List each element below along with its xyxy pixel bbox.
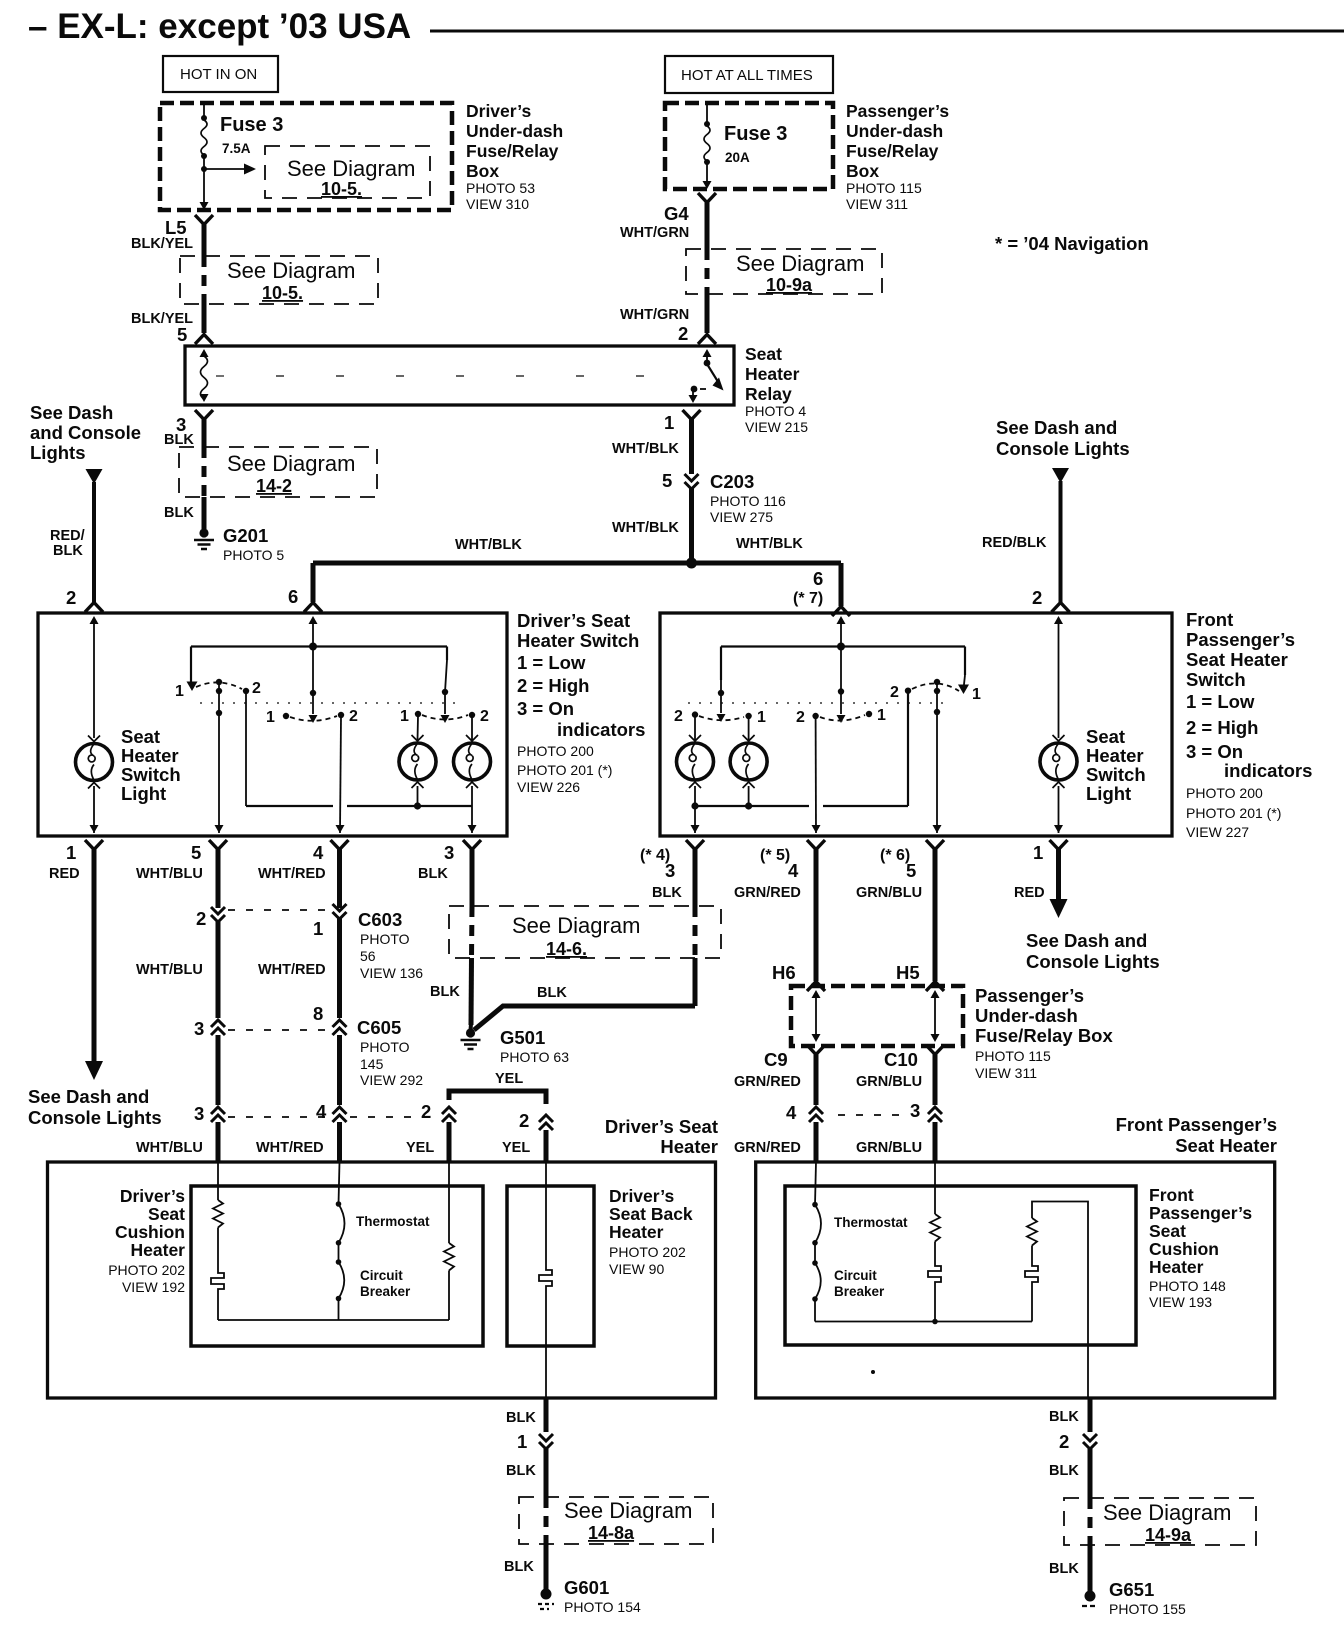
svg-text:3: 3 [910, 1100, 920, 1121]
svg-text:1: 1 [877, 707, 886, 724]
note see dash and console lights (left) [30, 402, 141, 463]
connector C605 pin 3 [194, 1018, 225, 1039]
wire WHT/RED segment 2 [258, 918, 340, 1018]
svg-text:Seat: Seat [121, 726, 160, 747]
driver's seat back heater inner box [507, 1186, 594, 1346]
wire RED passenger pin 1 to dash lights [1014, 849, 1068, 918]
label seat heater relay [745, 344, 808, 435]
svg-text:Front: Front [1149, 1185, 1194, 1205]
svg-text:2 = High: 2 = High [517, 675, 589, 696]
front passenger's seat cushion heater inner box [785, 1186, 1136, 1345]
passenger lamp bus (hops pin-4 wire) [695, 692, 908, 806]
svg-text:H5: H5 [896, 962, 920, 983]
svg-text:Thermostat: Thermostat [834, 1215, 908, 1230]
passenger switch: pin 6 column [837, 616, 846, 647]
connector heater pin 3 (passenger) [910, 1100, 942, 1122]
svg-text:Console Lights: Console Lights [28, 1107, 162, 1128]
svg-text:PHOTO 63: PHOTO 63 [500, 1049, 569, 1065]
svg-text:1: 1 [400, 708, 409, 725]
svg-text:WHT/BLK: WHT/BLK [455, 537, 522, 553]
relay coil [200, 349, 209, 402]
svg-text:See Diagram: See Diagram [227, 451, 355, 476]
svg-text:Passenger’s: Passenger’s [1149, 1203, 1252, 1223]
svg-text:Switch: Switch [1086, 764, 1146, 785]
svg-text:YEL: YEL [502, 1140, 530, 1156]
svg-text:Heater: Heater [609, 1222, 664, 1242]
wire WHT/BLK horizontal bus [313, 536, 841, 563]
svg-text:BLK: BLK [506, 1410, 536, 1426]
note see dash and console lights (mid left) [28, 1086, 162, 1128]
svg-text:3: 3 [444, 842, 454, 863]
svg-text:1: 1 [313, 918, 323, 939]
svg-text:WHT/BLU: WHT/BLU [136, 1140, 203, 1156]
junction node WHT/BLK [686, 558, 697, 569]
connector C10 [884, 1045, 944, 1070]
svg-text:5: 5 [906, 860, 916, 881]
svg-text:G601: G601 [564, 1577, 609, 1598]
svg-text:See Dash: See Dash [30, 402, 113, 423]
svg-text:3: 3 [665, 860, 675, 881]
svg-text:Fuse/Relay: Fuse/Relay [466, 141, 559, 161]
svg-text:2: 2 [421, 1101, 431, 1122]
svg-text:Fuse/Relay Box: Fuse/Relay Box [975, 1025, 1113, 1046]
see diagram 14-8a box [519, 1497, 713, 1544]
svg-text:See Dash and: See Dash and [1026, 930, 1147, 951]
svg-text:BLK: BLK [537, 985, 567, 1001]
svg-text:PHOTO 115: PHOTO 115 [846, 180, 922, 196]
svg-text:8: 8 [313, 1003, 323, 1024]
svg-text:Heater: Heater [1086, 745, 1144, 766]
arrow to see diagram 10-5 [204, 164, 256, 175]
svg-text:VIEW 215: VIEW 215 [745, 419, 808, 435]
svg-text:(* 7): (* 7) [793, 590, 823, 607]
svg-text:BLK: BLK [418, 866, 448, 882]
svg-text:WHT/RED: WHT/RED [258, 962, 326, 978]
wire WHT/RED segment 3 [256, 1035, 340, 1156]
svg-text:Passenger’s: Passenger’s [975, 985, 1084, 1006]
wire WHT/BLU segment 3 [136, 1035, 218, 1156]
label front passenger's seat heater [1116, 1114, 1277, 1156]
svg-text:Box: Box [466, 161, 499, 181]
svg-text:Breaker: Breaker [360, 1284, 411, 1299]
wire GRN/BLU into heater box [856, 1122, 935, 1162]
svg-text:WHT/BLU: WHT/BLU [136, 866, 203, 882]
driver's seat heater switch box S1 [38, 613, 507, 836]
wire GRN/RED into heater box [734, 1122, 816, 1162]
svg-text:RED/: RED/ [50, 528, 85, 544]
svg-text:14-6.: 14-6. [546, 939, 587, 959]
svg-text:VIEW 227: VIEW 227 [1186, 824, 1249, 840]
label driver's seat cushion heater [108, 1186, 185, 1295]
svg-text:C10: C10 [884, 1049, 918, 1070]
svg-text:See Dash and: See Dash and [996, 417, 1117, 438]
svg-text:20A: 20A [725, 150, 750, 165]
see diagram 10-9a box [686, 249, 882, 295]
connector heater pin 4 [316, 1101, 347, 1122]
wire BLK driver heater to G601 [506, 1398, 546, 1432]
svg-text:PHOTO 155: PHOTO 155 [1109, 1601, 1186, 1617]
svg-text:Circuit: Circuit [834, 1268, 877, 1283]
svg-text:3 = On: 3 = On [517, 698, 574, 719]
svg-text:Under-dash: Under-dash [846, 121, 943, 141]
connector driver switch pin 2 (top) [66, 587, 103, 612]
svg-text:14-9a: 14-9a [1145, 1525, 1192, 1545]
svg-text:Under-dash: Under-dash [466, 121, 563, 141]
wire WHT/RED into heater box [337, 1122, 342, 1162]
svg-text:VIEW 193: VIEW 193 [1149, 1294, 1212, 1310]
svg-text:2: 2 [796, 709, 805, 726]
svg-text:Light: Light [1086, 783, 1131, 804]
svg-text:Front Passenger’s: Front Passenger’s [1116, 1114, 1277, 1135]
svg-text:1 = Low: 1 = Low [1186, 691, 1255, 712]
svg-text:Passenger’s: Passenger’s [846, 101, 949, 121]
svg-text:BLK: BLK [164, 432, 194, 448]
svg-text:Seat: Seat [148, 1204, 185, 1224]
label driver's seat heater switch [517, 610, 645, 795]
svg-text:5: 5 [662, 470, 672, 491]
svg-text:1: 1 [664, 412, 674, 433]
connector H5 [926, 982, 944, 992]
svg-text:– EX-L: except ’03 USA: – EX-L: except ’03 USA [28, 7, 411, 46]
svg-text:RED/BLK: RED/BLK [982, 535, 1047, 551]
svg-text:VIEW 311: VIEW 311 [846, 196, 908, 212]
wire WHT/BLK C203 to junction [612, 488, 692, 563]
passenger switch internal bus [721, 643, 965, 651]
svg-text:GRN/BLU: GRN/BLU [856, 885, 922, 901]
svg-text:BLK: BLK [164, 505, 194, 521]
passenger seat heater switch light L2 [1040, 735, 1077, 788]
connector C203 [662, 470, 786, 525]
svg-text:PHOTO 4: PHOTO 4 [745, 403, 806, 419]
svg-text:Heater: Heater [1149, 1257, 1204, 1277]
wire lamp B down to pin 3 [468, 786, 477, 833]
driver seat heater switch light L1 [76, 736, 113, 789]
svg-text:C9: C9 [764, 1049, 788, 1070]
wire BLK to 14-9a [1049, 1448, 1090, 1498]
svg-text:See Diagram: See Diagram [564, 1498, 692, 1523]
svg-text:RED: RED [1014, 885, 1045, 901]
wire BLK to G601 [504, 1544, 546, 1590]
label C605 [357, 1017, 423, 1088]
svg-text:Heater: Heater [131, 1240, 186, 1260]
mechanical linkage (dashed) passenger [688, 702, 952, 704]
wire G4 inside see-diagram box [705, 249, 710, 294]
wire YEL loop (seat back heater feed) [449, 1071, 546, 1104]
driver switch pair C (indicator select) [400, 647, 489, 726]
label seat heater switch light (driver) [121, 726, 181, 804]
svg-text:BLK/YEL: BLK/YEL [131, 236, 193, 252]
driver switch pair A (wiper to pin 5) [175, 679, 261, 716]
wire BLK inside see-diagram box (driver tail) [544, 1497, 549, 1544]
svg-text:1 = Low: 1 = Low [517, 652, 586, 673]
svg-text:Fuse/Relay: Fuse/Relay [846, 141, 939, 161]
svg-text:Heater: Heater [660, 1136, 718, 1157]
svg-text:See Diagram: See Diagram [287, 156, 415, 181]
wire GRN/BLU passenger segment 1 [856, 849, 935, 983]
svg-text:2: 2 [519, 1110, 529, 1131]
svg-text:VIEW 310: VIEW 310 [466, 196, 529, 212]
label passenger's under-dash fuse/relay box [846, 101, 949, 212]
passenger cushion heater element 2 (return leg) [1025, 1202, 1088, 1399]
connector C9 [764, 1045, 825, 1070]
svg-text:WHT/GRN: WHT/GRN [620, 225, 689, 241]
svg-text:2 = High: 2 = High [1186, 717, 1258, 738]
svg-text:PHOTO: PHOTO [360, 931, 410, 947]
connector 1 (driver tail) [517, 1431, 553, 1452]
svg-text:56: 56 [360, 948, 376, 964]
svg-text:WHT/GRN: WHT/GRN [620, 307, 689, 323]
svg-text:HOT AT ALL TIMES: HOT AT ALL TIMES [681, 67, 813, 84]
driver switch pin 4 connector [313, 840, 349, 863]
wire WHT/BLU segment 1 [136, 849, 218, 908]
wire BLK to G201 [164, 497, 204, 529]
svg-text:PHOTO 116: PHOTO 116 [710, 493, 786, 509]
svg-text:145: 145 [360, 1056, 384, 1072]
svg-text:Driver’s Seat: Driver’s Seat [517, 610, 630, 631]
ground G501 [461, 1027, 570, 1065]
passenger pair B (from pin 6) [796, 647, 886, 727]
wire L5 inside see-diagram box [202, 256, 207, 304]
svg-text:indicators: indicators [557, 719, 645, 740]
passenger indicator lamp A [677, 735, 714, 788]
connector yel left pin 2 [421, 1101, 456, 1122]
svg-text:2: 2 [1032, 587, 1042, 608]
driver switch pair B (feeds pin 4) [266, 647, 358, 727]
wire WHT/BLU into heater box [216, 1122, 221, 1162]
svg-text:7.5A: 7.5A [222, 141, 251, 156]
svg-text:See Diagram: See Diagram [227, 258, 355, 283]
connector row tie line (passenger) [838, 1114, 908, 1116]
svg-text:WHT/RED: WHT/RED [258, 866, 326, 882]
svg-text:10-5.: 10-5. [262, 283, 303, 303]
svg-text:VIEW 275: VIEW 275 [710, 509, 773, 525]
svg-text:Seat Heater: Seat Heater [1175, 1135, 1277, 1156]
passenger pair A wiper column (from bus) [674, 647, 766, 727]
svg-text:Relay: Relay [745, 384, 792, 404]
svg-text:Fuse 3: Fuse 3 [724, 123, 787, 145]
see diagram 10-5 box (wire L5) [180, 256, 378, 304]
svg-text:PHOTO 200: PHOTO 200 [1186, 785, 1263, 801]
wire pair C wiper to pin 5 [933, 712, 942, 833]
connector passenger switch pin 2 (top) [1032, 587, 1070, 612]
svg-text:Cushion: Cushion [115, 1222, 185, 1242]
svg-text:1: 1 [757, 709, 766, 726]
driver switch pin 3 connector [444, 840, 481, 863]
connector H6 [807, 982, 825, 992]
wire BLK driver through 14-6 to G501 [430, 906, 472, 1030]
svg-text:Heater Switch: Heater Switch [517, 630, 639, 651]
wire BLK to 14-8a [506, 1448, 546, 1497]
wire G4 WHT/GRN [620, 202, 707, 249]
wire bus to contact 1 of pair A [190, 647, 192, 685]
wire WHT/BLU segment 2 [136, 921, 218, 1018]
svg-text:4: 4 [786, 1102, 797, 1123]
svg-text:Driver’s: Driver’s [466, 101, 531, 121]
wire L5 BLK/YEL [131, 224, 204, 256]
svg-text:PHOTO 201 (*): PHOTO 201 (*) [517, 762, 612, 778]
svg-text:5: 5 [191, 842, 201, 863]
svg-text:2: 2 [678, 323, 688, 344]
passenger circuit breaker [812, 1243, 885, 1322]
svg-text:2: 2 [674, 708, 683, 725]
front passenger's seat heater assembly box [756, 1162, 1275, 1398]
svg-text:1: 1 [66, 842, 76, 863]
wire GRN/BLU segment 2 [856, 1054, 935, 1105]
wire lamp B to lamp bus [745, 786, 752, 810]
svg-text:Light: Light [121, 783, 166, 804]
svg-text:6: 6 [288, 586, 298, 607]
driver's seat cushion heater inner box [191, 1186, 483, 1346]
svg-text:Thermostat: Thermostat [356, 1214, 430, 1229]
svg-text:RED: RED [49, 866, 80, 882]
svg-text:YEL: YEL [406, 1140, 434, 1156]
svg-text:GRN/BLU: GRN/BLU [856, 1074, 922, 1090]
svg-text:2: 2 [252, 680, 261, 697]
see diagram 14-9a box [1064, 1498, 1256, 1545]
passenger's under-dash fuse/relay box (dashed, top) [665, 103, 833, 189]
svg-text:See Dash and: See Dash and [28, 1086, 149, 1107]
driver cushion heater element 2 (YEL leg) [444, 1162, 454, 1320]
svg-text:PHOTO 201 (*): PHOTO 201 (*) [1186, 805, 1281, 821]
svg-text:Seat: Seat [1149, 1221, 1186, 1241]
label driver's seat back heater [609, 1186, 693, 1277]
title EX-L: except '03 USA [28, 7, 411, 46]
svg-text:3: 3 [194, 1018, 204, 1039]
HOT AT ALL TIMES box [665, 56, 833, 93]
svg-text:BLK: BLK [53, 543, 83, 559]
wire GRN/RED passenger segment 1 [734, 849, 816, 983]
svg-text:YEL: YEL [495, 1071, 523, 1087]
note see dash and console lights (right top) [996, 417, 1130, 459]
driver switch pin 1 connector [66, 840, 103, 863]
svg-text:WHT/BLK: WHT/BLK [612, 520, 679, 536]
svg-text:GRN/RED: GRN/RED [734, 1074, 801, 1090]
driver cushion heater element 1 (WHT/BLU leg) [211, 1162, 224, 1320]
svg-text:G4: G4 [664, 203, 689, 224]
connector yel right pin 2 [519, 1110, 553, 1131]
HOT IN ON box [163, 56, 278, 92]
svg-text:PHOTO 53: PHOTO 53 [466, 180, 535, 196]
svg-text:1: 1 [175, 683, 184, 700]
wire contact 2 pair A to indicator lamp A (passenger) [694, 716, 696, 740]
svg-text:See Diagram: See Diagram [512, 913, 640, 938]
label C603 [358, 909, 423, 981]
svg-text:14-8a: 14-8a [588, 1523, 635, 1543]
passenger thermostat [812, 1162, 908, 1246]
svg-text:14-2: 14-2 [256, 476, 292, 496]
passenger indicator lamp B [730, 735, 767, 788]
wire to passenger switch pin 6 [793, 563, 850, 616]
svg-text:PHOTO 202: PHOTO 202 [609, 1244, 686, 1260]
svg-text:Heater: Heater [121, 745, 179, 766]
svg-text:4: 4 [313, 842, 324, 863]
svg-text:Lights: Lights [30, 442, 86, 463]
svg-text:C203: C203 [710, 471, 754, 492]
svg-text:GRN/RED: GRN/RED [734, 1140, 801, 1156]
svg-text:(* 5): (* 5) [760, 847, 790, 864]
svg-text:Cushion: Cushion [1149, 1239, 1219, 1259]
svg-text:Console Lights: Console Lights [1026, 951, 1160, 972]
svg-text:L5: L5 [165, 217, 187, 238]
svg-text:2: 2 [66, 587, 76, 608]
svg-text:VIEW 311: VIEW 311 [975, 1065, 1037, 1081]
wire BLK to G651 [1049, 1545, 1090, 1592]
svg-text:2: 2 [890, 684, 899, 701]
driver switch: pin 6 column [309, 616, 318, 647]
svg-text:PHOTO 148: PHOTO 148 [1149, 1278, 1226, 1294]
svg-text:Driver’s Seat: Driver’s Seat [605, 1116, 718, 1137]
svg-text:Front: Front [1186, 609, 1233, 630]
svg-text:G651: G651 [1109, 1579, 1154, 1600]
svg-text:6: 6 [813, 568, 823, 589]
svg-text:Passenger’s: Passenger’s [1186, 629, 1295, 650]
passenger's under-dash fuse/relay box (dashed, mid) [791, 986, 963, 1046]
driver switch pin 5 connector [191, 840, 227, 863]
svg-text:WHT/RED: WHT/RED [256, 1140, 324, 1156]
label driver's seat heater [605, 1116, 718, 1157]
connector C603 pin 2 [196, 907, 225, 929]
wire WHT/BLK relay to C203 [612, 419, 692, 474]
connector L5 [165, 215, 213, 238]
svg-text:4: 4 [788, 860, 799, 881]
label front passenger's seat heater switch [1186, 609, 1312, 840]
passenger pair C (wiper to pin 5) [890, 647, 981, 716]
connector heater pin 3 [194, 1103, 225, 1124]
ground G601 [538, 1577, 641, 1615]
driver switch: pin2 lamp column wire [90, 616, 99, 738]
passenger switch: pin2 lamp column wire [1054, 616, 1063, 738]
label driver's under-dash fuse/relay box [466, 101, 563, 212]
wire pair B contact 2 to pin 4 [812, 718, 821, 833]
wire GRN/RED segment 2 [734, 1054, 816, 1105]
wire RED/BLK from dash lights [50, 469, 103, 602]
wire contact 1 pair A to indicator lamp B (passenger) [748, 718, 750, 740]
svg-text:WHT/BLK: WHT/BLK [736, 536, 803, 552]
svg-text:Box: Box [846, 161, 879, 181]
wire BLK passenger pin 3 down [652, 849, 695, 1006]
wire WHT/RED segment 1 [258, 849, 340, 908]
svg-text:BLK: BLK [652, 885, 682, 901]
mechanical linkage (dashed) driver [200, 702, 462, 704]
ground G201 [194, 525, 284, 563]
svg-text:BLK: BLK [430, 984, 460, 1000]
svg-text:BLK: BLK [504, 1559, 534, 1575]
svg-text:See Diagram: See Diagram [736, 251, 864, 276]
passenger switch pin 1 connector [1033, 840, 1068, 863]
driver cushion heater bottom bus [218, 1319, 449, 1321]
svg-text:10-5.: 10-5. [321, 179, 362, 199]
title rule [430, 30, 1344, 33]
connector C603 pin 1 [313, 904, 347, 939]
driver circuit breaker [336, 1243, 411, 1320]
C603 tie line [228, 909, 330, 911]
passenger's seat heater switch box S2 [660, 613, 1172, 836]
svg-text:HOT IN ON: HOT IN ON [180, 66, 257, 83]
svg-text:Seat Back: Seat Back [609, 1204, 693, 1224]
driver's under-dash fuse/relay box (dashed) [160, 103, 452, 210]
svg-text:G501: G501 [500, 1027, 545, 1048]
svg-text:Seat: Seat [1086, 726, 1125, 747]
see diagram 14-6 box [449, 906, 721, 959]
seat heater relay box U1 [185, 346, 734, 405]
wire contact 2 pair A down to lamp bus [245, 693, 247, 806]
label front passenger's seat cushion heater [1149, 1185, 1252, 1310]
wire RED/BLK right [982, 468, 1069, 602]
svg-text:1: 1 [517, 1431, 527, 1452]
svg-text:BLK: BLK [1049, 1409, 1079, 1425]
svg-text:and Console: and Console [30, 422, 141, 443]
tie line pin4 to yel [350, 1116, 440, 1118]
